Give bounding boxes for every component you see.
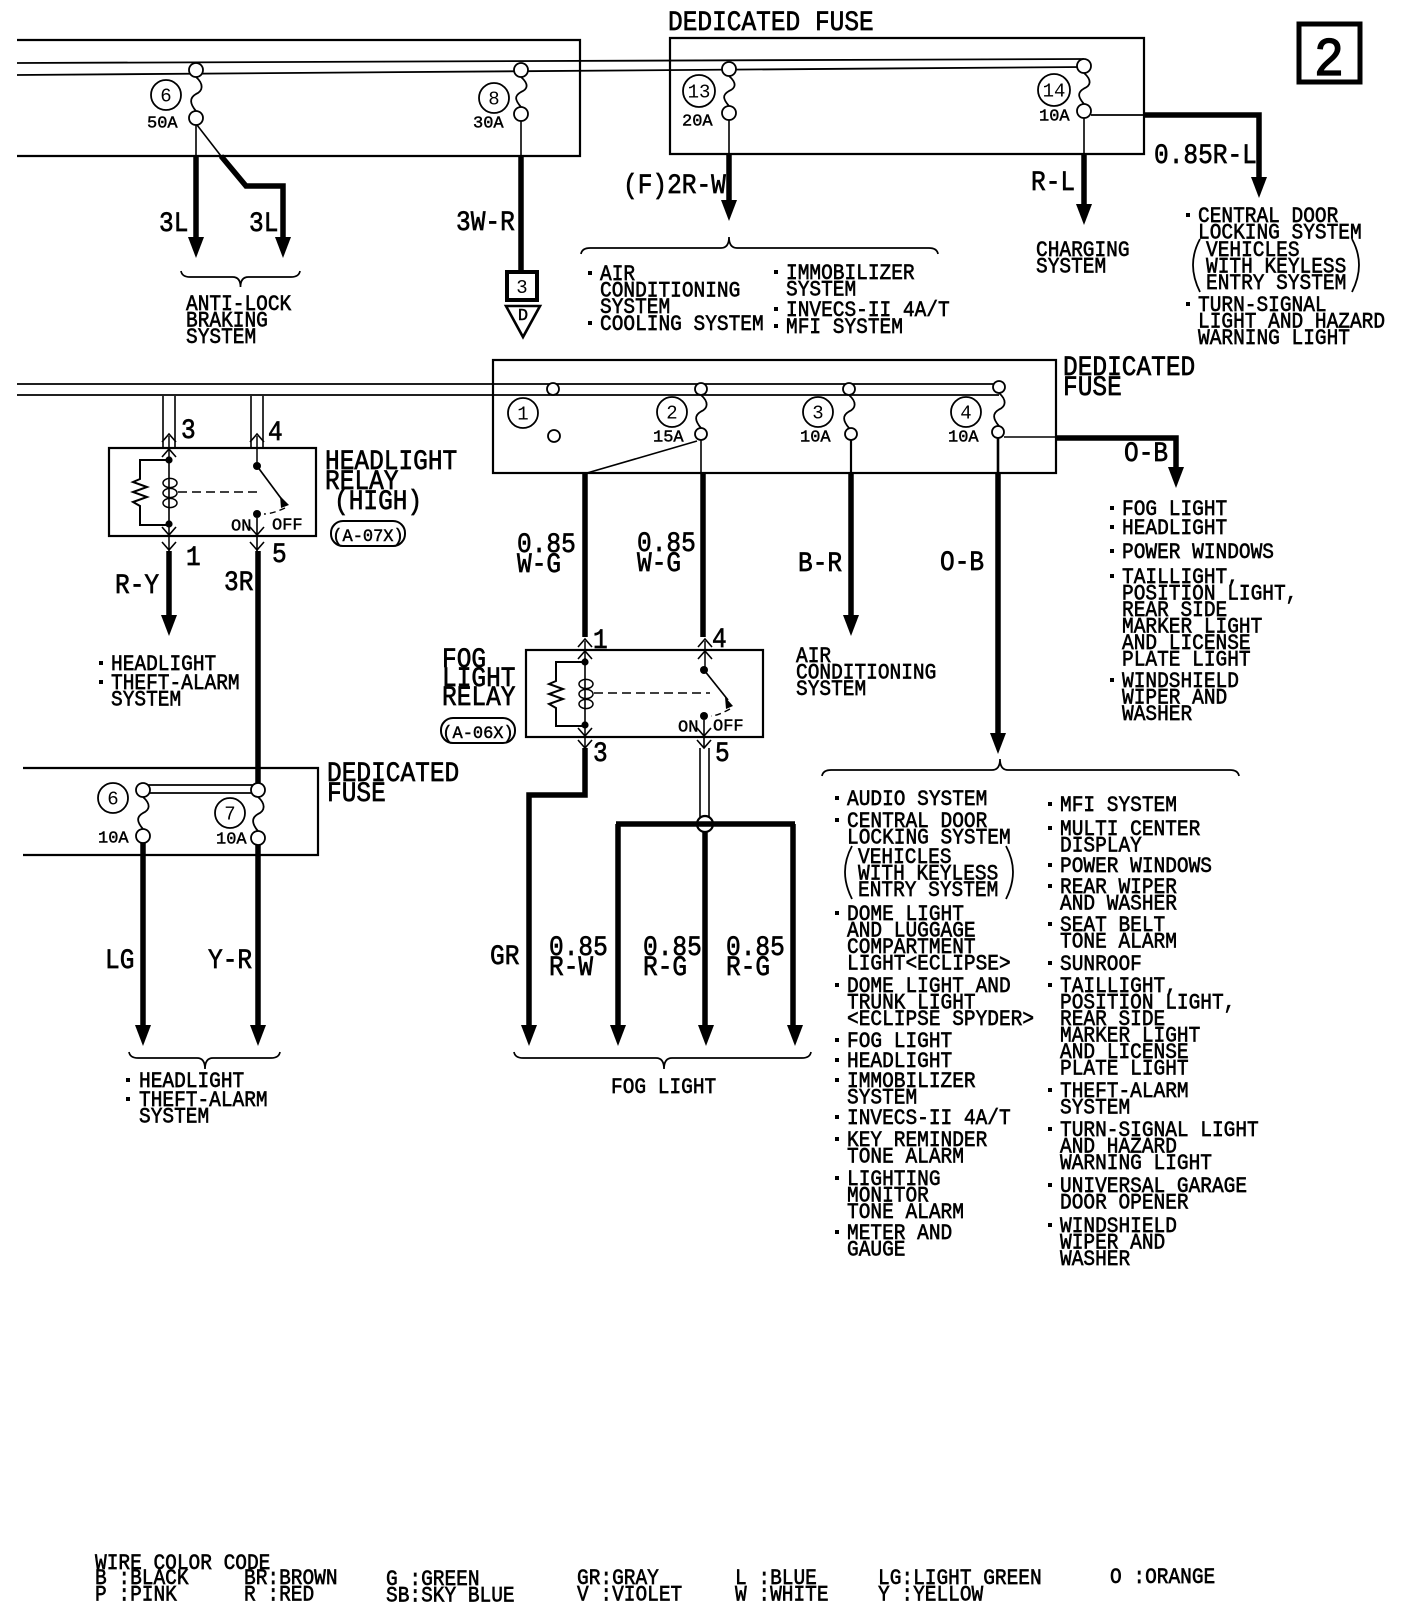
node fuse4 bottom bbox=[992, 426, 1004, 438]
node fuse7 top bbox=[251, 783, 265, 797]
node ON contact bbox=[253, 510, 261, 518]
fuse number 1 bbox=[508, 398, 538, 428]
svg-text:30A: 30A bbox=[473, 115, 504, 134]
fuse box dedicated lower bbox=[23, 768, 318, 855]
wire fog pin5 inside bbox=[703, 720, 705, 748]
svg-text:W :WHITE: W :WHITE bbox=[735, 1583, 829, 1607]
node fuse6L top bbox=[136, 783, 150, 797]
label 0.85R-L bbox=[1154, 140, 1257, 172]
wire 3L left bbox=[193, 156, 199, 240]
label pin 1 bbox=[186, 542, 201, 574]
label 3R bbox=[224, 567, 254, 599]
node switch pivot bbox=[253, 462, 261, 470]
brace AC list bbox=[581, 237, 938, 254]
node coil top bbox=[165, 456, 172, 463]
relay coil L1 bbox=[163, 478, 177, 487]
node fog ON contact bbox=[700, 712, 708, 720]
arrow 3L right bbox=[275, 237, 291, 258]
svg-text:PLATE LIGHT: PLATE LIGHT bbox=[1060, 1057, 1189, 1081]
node fuse8 bottom bbox=[514, 107, 528, 121]
exit mark fog pin5 outer bbox=[697, 740, 711, 748]
svg-text:SYSTEM: SYSTEM bbox=[111, 688, 181, 712]
wire 0.85R-L bbox=[1144, 115, 1259, 180]
arrow R-L bbox=[1076, 204, 1092, 225]
svg-text:GR: GR bbox=[490, 941, 520, 973]
label HEADLIGHT RELAY bbox=[325, 446, 457, 498]
wire bus1b bbox=[17, 67, 1084, 75]
label vehicles keyless block 2 bbox=[858, 846, 998, 903]
svg-text:POWER WINDOWS: POWER WINDOWS bbox=[1122, 541, 1274, 565]
wire fuse13 down bbox=[728, 120, 730, 154]
svg-text:WASHER: WASHER bbox=[1122, 703, 1192, 727]
exit mark pin1 outer bbox=[162, 542, 176, 550]
label 30A bbox=[473, 115, 504, 134]
list headlight theft-alarm 2 bbox=[139, 1070, 244, 1094]
svg-text:O-B: O-B bbox=[1124, 438, 1168, 470]
svg-text:DEDICATED FUSE: DEDICATED FUSE bbox=[668, 7, 874, 39]
svg-text:SUNROOF: SUNROOF bbox=[1060, 953, 1142, 977]
wire 0.85 W-G right bbox=[700, 473, 706, 637]
svg-text:8: 8 bbox=[488, 88, 499, 110]
wire fuse14 to edge bbox=[1091, 114, 1144, 116]
wire GR bbox=[529, 748, 585, 1026]
wire fuse8 down bbox=[520, 121, 522, 156]
svg-text:R-Y: R-Y bbox=[115, 570, 159, 602]
wire 3W-R bbox=[518, 156, 524, 270]
node fuse2 bottom bbox=[695, 428, 707, 440]
label (F)2R-W bbox=[623, 170, 726, 202]
connector square 3 bbox=[507, 272, 537, 300]
label pin 3 bbox=[181, 415, 196, 447]
svg-text:10A: 10A bbox=[98, 830, 129, 849]
label LG bbox=[105, 945, 134, 977]
label GR bbox=[490, 941, 520, 973]
legend col7 bbox=[1110, 1566, 1215, 1590]
svg-text:10A: 10A bbox=[1039, 108, 1070, 127]
svg-text:3W-R: 3W-R bbox=[456, 207, 515, 239]
node fog coil bottom bbox=[581, 721, 588, 728]
label pin 5 bbox=[272, 539, 287, 571]
node fuse4 top bbox=[993, 381, 1005, 393]
exit mark fog pin5 inner bbox=[697, 728, 711, 736]
svg-text:HEADLIGHT: HEADLIGHT bbox=[1122, 517, 1227, 541]
svg-text:<ECLIPSE SPYDER>: <ECLIPSE SPYDER> bbox=[847, 1008, 1034, 1032]
exit mark pin5 inner bbox=[250, 527, 264, 535]
fuse box dedicated middle bbox=[493, 360, 1056, 473]
fuse number 6 (50A) bbox=[151, 80, 181, 110]
arrow R-Y bbox=[161, 615, 177, 636]
switch arm arrowhead bbox=[280, 496, 289, 508]
svg-text:RELAY: RELAY bbox=[442, 682, 516, 714]
label AIR CONDITIONING SYSTEM bbox=[796, 645, 936, 702]
svg-text:1: 1 bbox=[186, 542, 201, 574]
svg-text:B-R: B-R bbox=[798, 548, 842, 580]
label 0.85 R-G mid bbox=[643, 932, 702, 984]
arrow 0.85 R-G mid bbox=[698, 1025, 714, 1046]
legend col6 bbox=[878, 1567, 1042, 1608]
svg-text:AUDIO SYSTEM: AUDIO SYSTEM bbox=[847, 788, 987, 812]
svg-text:FOG LIGHT: FOG LIGHT bbox=[611, 1076, 716, 1100]
svg-text:P :PINK: P :PINK bbox=[95, 1583, 177, 1607]
wire relay pin4 feed a bbox=[250, 396, 252, 448]
svg-text:2: 2 bbox=[1314, 29, 1344, 92]
svg-text:MFI SYSTEM: MFI SYSTEM bbox=[1060, 794, 1177, 818]
label Y-R bbox=[208, 945, 252, 977]
node fog coil top bbox=[581, 658, 588, 665]
node fuse6 top bbox=[189, 63, 203, 77]
svg-text:1: 1 bbox=[517, 403, 528, 425]
svg-text:3: 3 bbox=[593, 738, 608, 770]
wire 0.85 W-G left bbox=[582, 473, 588, 637]
dashed fog arm tail bbox=[711, 709, 730, 716]
label O-B left bbox=[940, 547, 984, 579]
wire fog pin1 through bbox=[584, 641, 586, 663]
arrow O-B right bbox=[1168, 467, 1184, 488]
label 3W-R bbox=[456, 207, 515, 239]
wire coil lead bbox=[168, 457, 170, 524]
svg-text:10A: 10A bbox=[948, 429, 979, 448]
relay coil L2 bbox=[579, 679, 593, 688]
svg-text:GAUGE: GAUGE bbox=[847, 1238, 905, 1262]
svg-text:3: 3 bbox=[181, 415, 196, 447]
node fuse3 top bbox=[843, 383, 855, 395]
node fuse13 bottom bbox=[722, 106, 736, 120]
fuse number 2 (15A) bbox=[657, 397, 687, 427]
svg-text:3: 3 bbox=[516, 277, 527, 299]
list central door / turn signal bbox=[1198, 205, 1362, 246]
svg-text:5: 5 bbox=[272, 539, 287, 571]
svg-text:0.85R-L: 0.85R-L bbox=[1154, 140, 1257, 172]
entry mark fog pin4 bbox=[698, 651, 712, 659]
svg-text:Y-R: Y-R bbox=[208, 945, 252, 977]
wire 3L right bbox=[221, 156, 283, 240]
connector ref A-07X pill bbox=[331, 521, 405, 546]
paren right mid bbox=[1006, 846, 1013, 899]
label 0.85 R-W bbox=[549, 932, 608, 984]
arrow O-B down bbox=[990, 733, 1006, 754]
fuse element 8 bbox=[516, 77, 527, 107]
wire pin4 through bbox=[256, 436, 258, 466]
exit mark pin5 outer bbox=[250, 542, 264, 550]
svg-text:OFF: OFF bbox=[713, 718, 744, 737]
label (HIGH) bbox=[334, 486, 422, 518]
label pin 4 bbox=[268, 417, 283, 449]
wire fuse4 right bbox=[1004, 436, 1056, 438]
label 15A bbox=[653, 429, 684, 448]
wire O-B down bbox=[995, 473, 1001, 736]
label FOG LIGHT caption bbox=[611, 1076, 716, 1100]
fuse number 4 (10A) bbox=[951, 397, 981, 427]
svg-text:Y :YELLOW: Y :YELLOW bbox=[878, 1583, 984, 1607]
svg-text:TONE ALARM: TONE ALARM bbox=[847, 1145, 964, 1169]
brace anti-lock bbox=[181, 271, 300, 287]
label vehicles keyless block bbox=[1206, 239, 1346, 296]
label 0.85 R-G right bbox=[726, 932, 785, 984]
node coil bottom bbox=[165, 520, 172, 527]
node fuse14 bottom bbox=[1077, 104, 1091, 118]
entry mark fog pin1 bbox=[578, 651, 592, 659]
svg-text:R :RED: R :RED bbox=[244, 1583, 314, 1607]
page number box 2 bbox=[1299, 24, 1360, 82]
brace headlight lower bbox=[129, 1052, 280, 1069]
svg-text:ON: ON bbox=[678, 719, 698, 738]
svg-text:14: 14 bbox=[1043, 80, 1066, 102]
svg-text:4: 4 bbox=[960, 402, 971, 424]
wire fuse6 down bbox=[195, 125, 197, 156]
svg-text:V :VIOLET: V :VIOLET bbox=[577, 1583, 682, 1607]
wire relay pin3 feed b bbox=[174, 396, 176, 448]
relay fog light A-06X box bbox=[526, 650, 763, 737]
svg-text:W-G: W-G bbox=[637, 548, 681, 580]
wire fog pin5 out a bbox=[699, 748, 701, 817]
svg-text:ENTRY SYSTEM: ENTRY SYSTEM bbox=[858, 879, 998, 903]
fuse element 3 bbox=[844, 395, 855, 428]
bus bar lower b bbox=[143, 792, 258, 794]
label fog OFF bbox=[713, 718, 744, 737]
wire R-G right down bbox=[790, 824, 796, 1026]
fuse number 13 (20A) bbox=[683, 75, 715, 107]
resistor R (relay) bbox=[133, 460, 169, 525]
label DEDICATED FUSE lower bbox=[327, 758, 459, 810]
node fog junction bbox=[697, 816, 713, 832]
svg-text:4: 4 bbox=[268, 417, 283, 449]
svg-text:MFI SYSTEM: MFI SYSTEM bbox=[786, 316, 903, 340]
wire fuse14 down bbox=[1083, 118, 1085, 154]
dashed actuation link fog bbox=[594, 692, 710, 694]
wire fog splitter bbox=[616, 821, 795, 827]
svg-text:WARNING LIGHT: WARNING LIGHT bbox=[1198, 327, 1350, 351]
label 20A bbox=[682, 113, 713, 132]
svg-text:(A-07X): (A-07X) bbox=[332, 527, 403, 547]
wire 3R bbox=[255, 551, 261, 784]
wire pin5 inside bbox=[256, 518, 258, 551]
paren left mid bbox=[845, 846, 852, 899]
wire fuse4 down inside bbox=[997, 438, 1000, 473]
switch arm bbox=[257, 466, 283, 501]
arrow 3L left bbox=[188, 237, 204, 258]
exit mark fog pin3 inner bbox=[578, 728, 592, 736]
svg-text:SYSTEM: SYSTEM bbox=[186, 326, 256, 350]
svg-text:3R: 3R bbox=[224, 567, 254, 599]
wire relay pin3 feed a bbox=[162, 396, 164, 448]
svg-text:6: 6 bbox=[107, 788, 118, 810]
svg-text:R-G: R-G bbox=[726, 952, 770, 984]
svg-text:R-W: R-W bbox=[549, 952, 593, 984]
node fuse13 top bbox=[722, 62, 736, 76]
fuse box dedicated top bbox=[670, 38, 1144, 154]
legend col3 bbox=[386, 1568, 515, 1609]
fuse element 7 bbox=[253, 797, 264, 831]
relay headlight (high) A-07X box bbox=[109, 448, 316, 536]
label fog pin 5 bbox=[715, 738, 730, 770]
svg-text:SYSTEM: SYSTEM bbox=[1060, 1096, 1130, 1120]
legend col1 bbox=[95, 1567, 189, 1608]
wire R-Y bbox=[166, 551, 172, 618]
wire fog coil lead bbox=[584, 658, 586, 725]
node fog switch pivot bbox=[700, 666, 708, 674]
label 50A bbox=[147, 115, 178, 134]
svg-text:WASHER: WASHER bbox=[1060, 1248, 1130, 1272]
fuse number 7 (10A) bbox=[215, 798, 245, 828]
svg-text:5: 5 bbox=[715, 738, 730, 770]
svg-text:COOLING SYSTEM: COOLING SYSTEM bbox=[600, 313, 764, 337]
label O-B right bbox=[1124, 438, 1168, 470]
svg-text:20A: 20A bbox=[682, 113, 713, 132]
label fog ON bbox=[678, 719, 698, 738]
label 10A fuse3 bbox=[800, 429, 831, 448]
label 10A fuse7 bbox=[216, 831, 247, 850]
label R-L bbox=[1031, 167, 1075, 199]
fuse box J/B top-left bbox=[17, 40, 580, 156]
svg-text:FUSE: FUSE bbox=[1063, 372, 1122, 404]
svg-text:3: 3 bbox=[812, 402, 823, 424]
fuse element 4 bbox=[994, 393, 1005, 426]
fuse element 13 bbox=[724, 76, 735, 106]
svg-text:O-B: O-B bbox=[940, 547, 984, 579]
svg-text:10A: 10A bbox=[216, 831, 247, 850]
node fuse7 bottom bbox=[251, 831, 265, 845]
wire pin1 through bbox=[168, 524, 170, 551]
svg-text:(F)2R-W: (F)2R-W bbox=[623, 170, 726, 202]
list O-B loads big left bbox=[847, 788, 987, 812]
svg-text:ON: ON bbox=[231, 518, 251, 537]
exit mark fog pin3 outer bbox=[578, 740, 592, 748]
svg-text:OFF: OFF bbox=[272, 517, 303, 536]
resistor R (fog relay) bbox=[549, 662, 585, 726]
exit mark pin1 inner bbox=[162, 527, 176, 535]
bus bar lower a bbox=[143, 784, 258, 786]
dashed arm tail bbox=[264, 508, 285, 514]
paren left top-right bbox=[1193, 239, 1200, 292]
label CHARGING SYSTEM bbox=[1036, 239, 1130, 280]
node fuse8 top bbox=[514, 63, 528, 77]
wire fog pin5 out b bbox=[708, 748, 710, 817]
svg-text:(A-06X): (A-06X) bbox=[442, 724, 513, 744]
svg-text:R-G: R-G bbox=[643, 952, 687, 984]
svg-text:LG: LG bbox=[105, 945, 134, 977]
arrow Y-R bbox=[250, 1025, 266, 1046]
svg-text:6: 6 bbox=[160, 85, 171, 107]
dashed actuation link bbox=[178, 491, 262, 493]
node fuse3 bottom bbox=[845, 428, 857, 440]
label 10A fuse4 bbox=[948, 429, 979, 448]
arrow 0.85 R-W bbox=[610, 1025, 626, 1046]
svg-text:(HIGH): (HIGH) bbox=[334, 486, 422, 518]
label ANTI-LOCK BRAKING SYSTEM bbox=[186, 293, 292, 350]
svg-text:TONE ALARM: TONE ALARM bbox=[1060, 930, 1177, 954]
label 3L left bbox=[159, 208, 188, 240]
svg-text:SYSTEM: SYSTEM bbox=[796, 678, 866, 702]
label ON bbox=[231, 518, 251, 537]
arrow B-R bbox=[843, 615, 859, 636]
svg-text:15A: 15A bbox=[653, 429, 684, 448]
fuse element 6L bbox=[138, 797, 149, 829]
wire fuse3 down bbox=[850, 440, 852, 473]
svg-text:10A: 10A bbox=[800, 429, 831, 448]
label 10A fuse6L bbox=[98, 830, 129, 849]
node fuse1 bottom bbox=[548, 430, 560, 442]
svg-text:DOOR OPENER: DOOR OPENER bbox=[1060, 1191, 1189, 1215]
label fog pin 4 bbox=[712, 624, 727, 656]
wire LG bbox=[140, 843, 146, 1026]
legend WIRE COLOR CODE bbox=[95, 1552, 270, 1576]
label OFF bbox=[272, 517, 303, 536]
fuse number 6 lower (10A) bbox=[98, 783, 128, 813]
fog switch arm bbox=[704, 670, 728, 700]
fuse element 2 bbox=[696, 395, 707, 428]
wire fog pin3 through bbox=[584, 725, 586, 748]
wire fuse2 diagonal bbox=[587, 441, 697, 473]
arrow 0.85R-L bbox=[1251, 177, 1267, 198]
node fuse1 top bbox=[547, 383, 559, 395]
fuse element 6 bbox=[191, 77, 202, 111]
paren right top-right bbox=[1352, 239, 1359, 292]
label DEDICATED FUSE top bbox=[668, 7, 874, 39]
wire R-G mid down bbox=[702, 832, 708, 1026]
svg-text:SYSTEM: SYSTEM bbox=[139, 1105, 209, 1129]
arrow (F)2R-W bbox=[721, 200, 737, 221]
wire fuse6 diagonal bbox=[197, 125, 221, 156]
list O-B loads right bbox=[1122, 498, 1227, 522]
list air conditioning etc bbox=[600, 263, 740, 320]
legend col5 bbox=[735, 1567, 829, 1608]
wire bus2a bbox=[17, 383, 999, 385]
svg-text:SB:SKY BLUE: SB:SKY BLUE bbox=[386, 1584, 515, 1608]
legend col2 bbox=[244, 1567, 338, 1608]
wire bus1a bbox=[17, 59, 1084, 63]
svg-text:D: D bbox=[518, 307, 528, 326]
label fog pin 1 bbox=[593, 625, 608, 657]
connector ref A-06X pill bbox=[441, 718, 515, 743]
connector mark pin4 top bbox=[250, 434, 264, 442]
ground triangle D bbox=[506, 306, 540, 337]
svg-text:W-G: W-G bbox=[517, 549, 561, 581]
label DEDICATED FUSE middle bbox=[1063, 352, 1195, 404]
wire Y-R bbox=[255, 845, 261, 1026]
arrow GR bbox=[521, 1025, 537, 1046]
wire B-R bbox=[848, 473, 854, 618]
node fuse6 bottom bbox=[189, 111, 203, 125]
fuse number 3 (10A) bbox=[803, 397, 833, 427]
fog switch arm arrowhead bbox=[725, 697, 733, 709]
wire pin3 through bbox=[168, 436, 170, 460]
label R-Y bbox=[115, 570, 159, 602]
svg-text:SYSTEM: SYSTEM bbox=[1036, 255, 1106, 279]
svg-text:7: 7 bbox=[224, 803, 235, 825]
label 0.85 W-G left bbox=[517, 529, 576, 581]
list headlight theft-alarm 1 bbox=[111, 653, 216, 677]
brace fog light bbox=[514, 1052, 811, 1069]
node fuse6L bottom bbox=[136, 829, 150, 843]
list O-B loads big right bbox=[1060, 794, 1177, 818]
label fog pin 3 bbox=[593, 738, 608, 770]
svg-text:FUSE: FUSE bbox=[327, 778, 386, 810]
connector mark fog pin1 bbox=[578, 639, 592, 647]
wire (F)2R-W bbox=[726, 154, 732, 203]
wire R-W down bbox=[615, 824, 621, 1026]
svg-text:WARNING LIGHT: WARNING LIGHT bbox=[1060, 1152, 1212, 1176]
list immobilizer etc bbox=[786, 262, 915, 303]
wire bus2b bbox=[17, 394, 999, 396]
connector mark pin3 top bbox=[162, 434, 176, 442]
label B-R bbox=[798, 548, 842, 580]
wire O-B right bbox=[1056, 438, 1176, 470]
brace O-B big list bbox=[822, 759, 1239, 776]
entry mark pin3 bbox=[162, 449, 176, 457]
fuse number 8 (30A) bbox=[479, 83, 509, 113]
wire relay pin4 feed b bbox=[262, 396, 264, 448]
svg-text:O :ORANGE: O :ORANGE bbox=[1110, 1566, 1215, 1590]
